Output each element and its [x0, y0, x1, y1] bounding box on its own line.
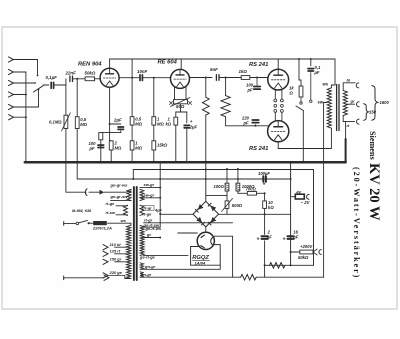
- wire P3 to dc line: [226, 208, 228, 214]
- junction minus a: [237, 178, 239, 180]
- tube V3 RS241: [268, 69, 289, 90]
- capacitor C6 2uF bias: [184, 124, 189, 126]
- wire bracket right down: [186, 112, 188, 123]
- svg-text:125 rt: 125 rt: [110, 248, 121, 253]
- V3 pin stub left: [274, 90, 276, 99]
- V4 pin circle right: [281, 110, 284, 113]
- resistor R7 15k row B: [152, 141, 156, 150]
- svg-text:rt-gr: rt-gr: [144, 205, 153, 210]
- svg-text:MΩ: MΩ: [115, 146, 122, 151]
- wire node to P1: [65, 85, 67, 115]
- mains lead 1: [64, 222, 76, 224]
- input jack J5: [9, 104, 14, 109]
- resistor R17 50k: [300, 250, 313, 254]
- IT secondary lead 2: [140, 197, 160, 199]
- wire R15 to node: [257, 192, 265, 194]
- svg-text:sw-gr: sw-gr: [144, 192, 155, 197]
- IT feedback lead 2: [116, 214, 128, 216]
- svg-text:(20-Watt-Verstärker): (20-Watt-Verstärker): [352, 167, 361, 279]
- wire V2 anode to HT bus: [180, 59, 182, 69]
- resistor R10 zigzag: [221, 96, 230, 117]
- riser bridge top: [205, 162, 207, 202]
- svg-text:sw-gr: sw-gr: [144, 182, 155, 187]
- hatch R14: [236, 185, 239, 191]
- drop to R14: [237, 169, 239, 183]
- junction coupling a: [131, 77, 133, 79]
- svg-text:+: +: [283, 237, 286, 243]
- svg-text:pF: pF: [243, 121, 250, 126]
- svg-text:50kΩ: 50kΩ: [298, 255, 309, 260]
- IT vertical link: [0, 0, 1, 1]
- PT primary winding: [127, 225, 131, 278]
- resistor R16 10k: [263, 201, 267, 209]
- IT feedback winding: [124, 205, 128, 215]
- junction R9 top: [205, 77, 207, 79]
- wire R16 down: [264, 208, 266, 214]
- wire C3 to left drop: [101, 131, 121, 162]
- svg-text:gn-gr-sw: gn-gr-sw: [110, 194, 129, 199]
- wire R10 drop: [225, 78, 227, 96]
- svg-text:5nF: 5nF: [210, 67, 218, 72]
- OT secondary bottom lead: [343, 116, 354, 122]
- tap lead 150: [115, 261, 128, 263]
- OT secondary to riser: [343, 122, 345, 139]
- wire switch to C1: [43, 84, 49, 86]
- wire node up: [65, 79, 67, 85]
- HT branch to C10: [310, 59, 312, 66]
- dc line: [219, 213, 291, 215]
- svg-text:kΩ: kΩ: [166, 121, 172, 126]
- svg-text:gr: gr: [146, 232, 151, 237]
- bias box left drop: [290, 162, 292, 265]
- resistor R4 0,5M row A: [130, 117, 134, 125]
- speaker jack 3: [357, 119, 360, 124]
- wire C1 to node: [55, 84, 66, 86]
- wire R9 drop: [205, 78, 207, 98]
- capacitor C11 100uF: [262, 176, 264, 182]
- V3 pin circle left: [274, 99, 277, 102]
- OT secondary winding: [343, 90, 347, 115]
- junction y169 a: [226, 168, 228, 170]
- junction grid leak: [76, 78, 78, 80]
- svg-text:150: 150: [369, 110, 377, 115]
- junction HV vert: [159, 213, 161, 215]
- resistor R9 zigzag: [202, 97, 209, 115]
- heater lead to loop: [219, 264, 221, 266]
- svg-text:MΩ: MΩ: [157, 122, 164, 127]
- wire P1 down to connector: [66, 129, 86, 193]
- wire R6 to R7: [153, 125, 155, 141]
- wire arm to earth bus: [302, 111, 304, 163]
- mains switch contact 2: [88, 222, 90, 224]
- resistor R11 1k: [241, 76, 250, 80]
- tap arrow 110: [103, 245, 108, 250]
- wire R13 to P3: [226, 191, 228, 201]
- resistor R5 2M row B: [130, 141, 134, 150]
- drop to R13: [226, 169, 228, 183]
- capacitor C4 100pF: [98, 144, 104, 146]
- wire R14 down: [237, 191, 239, 193]
- label rt-gr box: [143, 206, 155, 211]
- tap lead 125: [115, 253, 128, 255]
- line y195 bridge: [206, 194, 227, 196]
- capacitor C10 0,1uF: [308, 68, 313, 70]
- svg-text:pF: pF: [89, 146, 96, 151]
- junction cathode: [109, 123, 111, 125]
- speaker jack 1: [356, 83, 359, 88]
- svg-text:REN 904: REN 904: [78, 62, 102, 68]
- wire C12 up: [264, 214, 266, 234]
- bias cell: [295, 194, 304, 199]
- IT secondary lead 1: [140, 187, 160, 189]
- svg-text:gn-gr: gn-gr: [144, 264, 156, 269]
- bridge diode 1: [198, 204, 204, 210]
- capacitor C3 2uF: [118, 126, 123, 128]
- switch contact d: [300, 102, 302, 104]
- resistor R12 1k: [299, 86, 303, 97]
- svg-text:µF: µF: [314, 70, 320, 75]
- wire R7 to earth bus: [153, 150, 155, 162]
- svg-text:1kΩ: 1kΩ: [239, 69, 248, 74]
- HT branch to R12: [298, 59, 300, 70]
- svg-text:700Ω: 700Ω: [246, 187, 257, 192]
- svg-text:RS 241: RS 241: [249, 146, 268, 152]
- svg-text:MΩ: MΩ: [80, 122, 87, 127]
- minus line: [77, 178, 290, 180]
- potentiometer P1 0,1M: [64, 115, 68, 128]
- wire R12 chain: [299, 70, 301, 87]
- wire R8 to earth bus: [175, 125, 177, 162]
- PT fil winding 2: [140, 272, 144, 277]
- switch contact b: [34, 82, 36, 84]
- x mark right: [189, 102, 192, 105]
- tap lead 110: [115, 246, 128, 248]
- tube V1 REN904: [100, 68, 119, 87]
- wire loop rt: [219, 265, 221, 269]
- rt-gr lead: [144, 222, 233, 224]
- PT primary bottom lead: [125, 278, 131, 280]
- V5 cathode loop: [191, 245, 221, 266]
- small impedance brace: [364, 104, 369, 121]
- bias box right: [313, 170, 315, 266]
- hatch R13: [225, 185, 228, 191]
- capacitor C1 0,1uF: [50, 82, 52, 88]
- svg-text:RS 241: RS 241: [249, 62, 268, 68]
- IT feedback lead 1: [116, 205, 128, 207]
- PT core: [133, 187, 135, 280]
- svg-text:+: +: [263, 182, 266, 188]
- junction dc a: [264, 213, 266, 215]
- switch arm 2: [296, 106, 303, 111]
- connector plug: [85, 189, 87, 196]
- svg-text:100Ω: 100Ω: [214, 184, 225, 189]
- wire R11 to V3 grid: [250, 77, 268, 79]
- wire P2 wiper down: [180, 104, 182, 112]
- tube V2 RE604: [171, 69, 190, 88]
- wire R16 top: [264, 193, 266, 201]
- OT primary top lead: [331, 85, 335, 88]
- selector switch arm: [34, 86, 44, 92]
- wire cathode to C3: [110, 123, 121, 125]
- mains switch arm: [79, 220, 88, 222]
- feedback line y265: [265, 264, 291, 266]
- IT primary winding: [127, 189, 131, 200]
- resistor R6 1M row A: [152, 117, 156, 125]
- svg-text:rt-sw: rt-sw: [106, 210, 116, 215]
- svg-text:22nF: 22nF: [65, 71, 77, 76]
- grid drop V2: [153, 78, 155, 117]
- wire R3 to earth bus: [110, 150, 112, 162]
- wire jack4 to bus: [14, 94, 26, 96]
- wire R9 to earth bus: [205, 115, 207, 162]
- svg-text:RE 604: RE 604: [158, 60, 178, 66]
- V4 pin stub right: [281, 112, 283, 121]
- svg-text:MΩ: MΩ: [135, 122, 142, 127]
- wire V3 anode to HT bus: [277, 59, 279, 69]
- wire jack2 to bus: [14, 71, 26, 73]
- svg-text:220 ge: 220 ge: [109, 270, 123, 275]
- line y169: [133, 169, 313, 171]
- svg-text:150 gr: 150 gr: [110, 256, 122, 261]
- P1 wiper arrow: [62, 113, 71, 131]
- svg-text:220V/1,2A: 220V/1,2A: [92, 226, 112, 231]
- input jack J6: [9, 115, 14, 120]
- junction heater: [290, 264, 292, 266]
- terminal 200V jack: [319, 250, 321, 255]
- capacitor C9 220pF: [252, 119, 258, 121]
- svg-text:4µF: 4µF: [154, 207, 163, 212]
- junction C9: [255, 125, 257, 127]
- resistor R8 1k: [174, 117, 178, 125]
- svg-text:100µF: 100µF: [258, 171, 270, 176]
- junction C10 top: [310, 58, 312, 60]
- V3 pin circle right: [281, 99, 284, 102]
- resistor R15 700: [247, 192, 256, 196]
- V2 filament leg left: [174, 88, 176, 100]
- svg-text:2µF: 2µF: [113, 118, 122, 123]
- svg-text:+: +: [257, 237, 260, 243]
- svg-text:4V: 4V: [295, 189, 301, 194]
- PT fil winding 1: [140, 263, 144, 270]
- svg-text:rt-ge: rt-ge: [106, 201, 116, 206]
- wire jack3 to switch contact: [14, 82, 35, 84]
- svg-text:ws: ws: [323, 82, 329, 87]
- tap lead 220: [109, 274, 125, 276]
- mains lead 2 arrow: [104, 275, 109, 280]
- svg-text:0,1µF: 0,1µF: [46, 75, 58, 80]
- wire C7 to R10: [219, 77, 241, 79]
- bridge ac left lead: [160, 213, 193, 215]
- wire jack6 to bus: [14, 116, 26, 118]
- V5 right lead: [214, 236, 232, 277]
- switch contact e: [310, 100, 312, 102]
- input jack J4: [9, 92, 14, 97]
- mains switch contact 1: [76, 222, 79, 225]
- svg-text:sw: sw: [318, 100, 324, 105]
- wire C2 to R1: [73, 78, 86, 80]
- input bus vertical: [25, 72, 27, 162]
- capacitor C8 100pF: [254, 86, 260, 88]
- resistor R14 1000: [236, 183, 240, 191]
- tap arrow 150: [103, 259, 108, 264]
- OT secondary top lead: [343, 83, 355, 91]
- resistor R2 0,5M: [75, 117, 79, 129]
- svg-text:ws: ws: [121, 218, 127, 223]
- V4 pin circle left: [274, 110, 277, 113]
- junction C8: [256, 77, 258, 79]
- bridge diode 3: [196, 217, 202, 223]
- input jack J3: [9, 80, 14, 85]
- P2 arrow: [171, 98, 191, 107]
- bias jack C: [307, 194, 309, 199]
- wire grid leak top: [76, 79, 78, 117]
- svg-text:110 bl: 110 bl: [110, 242, 122, 247]
- junction y169 b: [237, 168, 239, 170]
- heater lead upper: [140, 268, 220, 270]
- resistor R13 100: [225, 183, 229, 191]
- wire R10 to V4 grid line: [226, 117, 268, 126]
- line 700 ohm: [238, 192, 247, 194]
- V3 pin stub right: [281, 89, 283, 99]
- OT tap lead: [324, 102, 328, 104]
- V5 anode lead: [178, 232, 198, 234]
- resistor R20 cathode: [99, 133, 103, 140]
- svg-text:Siemens: Siemens: [368, 131, 377, 160]
- capacitor C2 22nF: [69, 76, 71, 81]
- OT core: [336, 85, 338, 131]
- svg-text:+200V: +200V: [300, 244, 313, 249]
- PT HV winding: [140, 226, 144, 256]
- junction HV minus: [159, 178, 161, 180]
- wire V1 cathode down: [109, 87, 111, 141]
- wire V1 anode coupling: [119, 77, 139, 79]
- resistor R19 zigzag: [241, 274, 257, 280]
- large impedance brace: [372, 86, 378, 121]
- capacitor C5 10nF: [139, 75, 141, 81]
- junction minus b: [186, 161, 188, 163]
- switch contact c: [38, 89, 40, 91]
- junction 200V: [290, 251, 292, 253]
- wire C10 to contact: [310, 73, 312, 100]
- wire to R17: [291, 251, 300, 253]
- wire bracket left down: [175, 112, 177, 117]
- wire R1 to V1 grid: [95, 78, 101, 80]
- bridge diode 2: [211, 206, 217, 212]
- wire R2 to minus line: [76, 129, 78, 180]
- wire C6 to earth bus: [186, 129, 188, 162]
- svg-text:M-9W, 636: M-9W, 636: [72, 208, 92, 213]
- P3 arrow: [222, 199, 233, 212]
- junction coupling b: [153, 77, 155, 79]
- junction R10 top: [225, 77, 227, 79]
- HV top lead: [144, 214, 161, 227]
- OT primary winding: [327, 88, 331, 128]
- capacitor C13 16uF: [288, 235, 294, 237]
- svg-text:1A/04: 1A/04: [195, 260, 206, 265]
- IT primary bottom lead: [111, 200, 132, 202]
- wire R3 top join: [110, 140, 112, 142]
- switch contact a: [37, 75, 39, 77]
- input jack J2: [9, 69, 14, 74]
- wire switch to fuse: [89, 222, 94, 224]
- svg-text:0,1MΩ: 0,1MΩ: [49, 120, 62, 125]
- svg-text:Ω: Ω: [289, 91, 294, 96]
- wire R4 to R5: [131, 125, 133, 141]
- mains lead 2: [64, 277, 104, 279]
- OT secondary mid tap: [346, 103, 355, 105]
- fuse 220V: [93, 221, 107, 225]
- resistor R3 2M: [109, 141, 113, 150]
- anode load drop from HT: [131, 59, 133, 117]
- bridge diamond: [193, 201, 219, 227]
- potentiometer P2 50 ohm: [174, 100, 188, 104]
- svg-text:µF: µF: [266, 234, 272, 239]
- svg-text:gn-gr: gn-gr: [140, 272, 152, 277]
- svg-text:gn-gr-ws: gn-gr-ws: [110, 182, 129, 187]
- junction riser y179: [205, 178, 207, 180]
- junction jack6: [25, 116, 27, 118]
- IT secondary small winding: [140, 205, 144, 215]
- tube V4 RS241: [268, 121, 289, 142]
- socket circle left: [274, 104, 277, 107]
- capacitor C12 2uF: [262, 235, 268, 237]
- wire C8 stub: [256, 78, 258, 86]
- IT primary top lead: [0, 0, 1, 1]
- svg-text:15kΩ: 15kΩ: [157, 143, 168, 148]
- terminal 200V marks: [313, 249, 317, 255]
- HV mid lead: [144, 237, 161, 239]
- heater line left: [140, 276, 241, 278]
- x mark left: [170, 102, 173, 105]
- HV bottom lead: [144, 255, 189, 257]
- bias box top: [291, 169, 314, 171]
- bridge diode 4: [211, 217, 217, 223]
- mains stub 2: [63, 276, 65, 280]
- wire C12 down: [264, 241, 266, 277]
- bias box bottom: [291, 264, 314, 266]
- wire jack5 to switch contact: [14, 91, 39, 108]
- junction R16 top: [264, 192, 266, 194]
- input jack J1: [9, 57, 14, 62]
- PT primary top lead: [108, 222, 131, 224]
- svg-text:– 2V: – 2V: [301, 200, 311, 205]
- V4 pin stub left: [274, 112, 276, 121]
- V2 filament leg right: [185, 87, 187, 100]
- svg-text:MΩ: MΩ: [135, 146, 142, 151]
- junction bias left: [290, 178, 292, 180]
- bias bracket: [176, 111, 187, 113]
- svg-text:2µF: 2µF: [189, 124, 198, 129]
- wire V4 anode down: [277, 142, 279, 149]
- svg-text:+: +: [190, 119, 193, 124]
- junction HT branch: [298, 58, 300, 60]
- tap arrow 125: [103, 251, 108, 256]
- IT secondary winding: [140, 189, 144, 200]
- HT supply bus: [110, 59, 335, 85]
- svg-text:ge-rt-sw: ge-rt-sw: [143, 223, 160, 228]
- wire R12 to contact: [300, 97, 302, 102]
- tube V5 RGQZ: [197, 232, 214, 249]
- wire V2 anode right: [190, 77, 213, 79]
- svg-text:1600: 1600: [380, 100, 390, 105]
- svg-text:10nF: 10nF: [137, 69, 148, 74]
- wire V1 anode to HT bus: [109, 59, 111, 68]
- socket circle right: [281, 104, 284, 107]
- svg-text:500Ω: 500Ω: [232, 203, 243, 208]
- mains stub: [63, 222, 65, 226]
- wire jack1 to switch contact: [14, 60, 38, 75]
- svg-text:KV 20 W: KV 20 W: [366, 163, 382, 221]
